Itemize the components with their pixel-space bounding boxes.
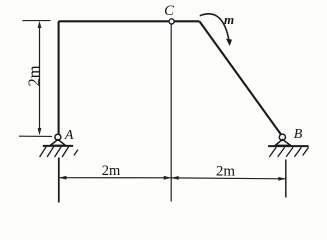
label B [294,127,303,142]
label m [224,12,234,27]
hinge C [169,19,174,24]
moment arc m [200,14,229,42]
arrow right end at middle [164,176,172,180]
svg-text:A: A [64,128,74,143]
support B: ground line [268,145,309,147]
moment arrowhead [226,39,232,46]
label A [64,128,74,143]
svg-text:C: C [164,3,174,19]
member: inclined bar C-B [199,21,281,135]
label 2m left [102,163,121,179]
dim: left vertical dimension line [39,24,41,132]
extension line below B [285,160,287,198]
support B: pin circle [279,134,285,140]
svg-text:m: m [224,12,234,27]
svg-text:B: B [294,127,303,142]
dim: top tick at beam level [22,20,50,22]
support A: triangle [50,140,65,146]
support A: hatching [40,147,78,157]
dim: bottom arrow (down) [38,128,42,135]
svg-text:2m: 2m [25,65,44,86]
member: top beam [59,20,200,22]
label 2m vertical [25,65,44,86]
dim: bottom tick at A level [19,135,52,137]
label C [164,3,174,19]
extension line below C [170,25,172,202]
dim: top arrow (up) [38,21,42,28]
arrow left end [59,176,67,180]
dim: bottom-left dimension line [59,177,171,179]
support A: ground line [43,145,73,147]
svg-text:2m: 2m [216,163,236,179]
dim: bottom-right dimension line [171,177,286,180]
support A: pin circle [55,134,61,140]
support B: triangle [275,140,290,146]
svg-text:2m: 2m [102,163,121,179]
arrow left end at middle [171,176,179,180]
arrow right end at B [278,177,286,181]
member: left column [58,21,60,134]
label 2m right [216,163,236,179]
extension line below A [58,158,60,203]
support B: hatching [269,147,308,157]
